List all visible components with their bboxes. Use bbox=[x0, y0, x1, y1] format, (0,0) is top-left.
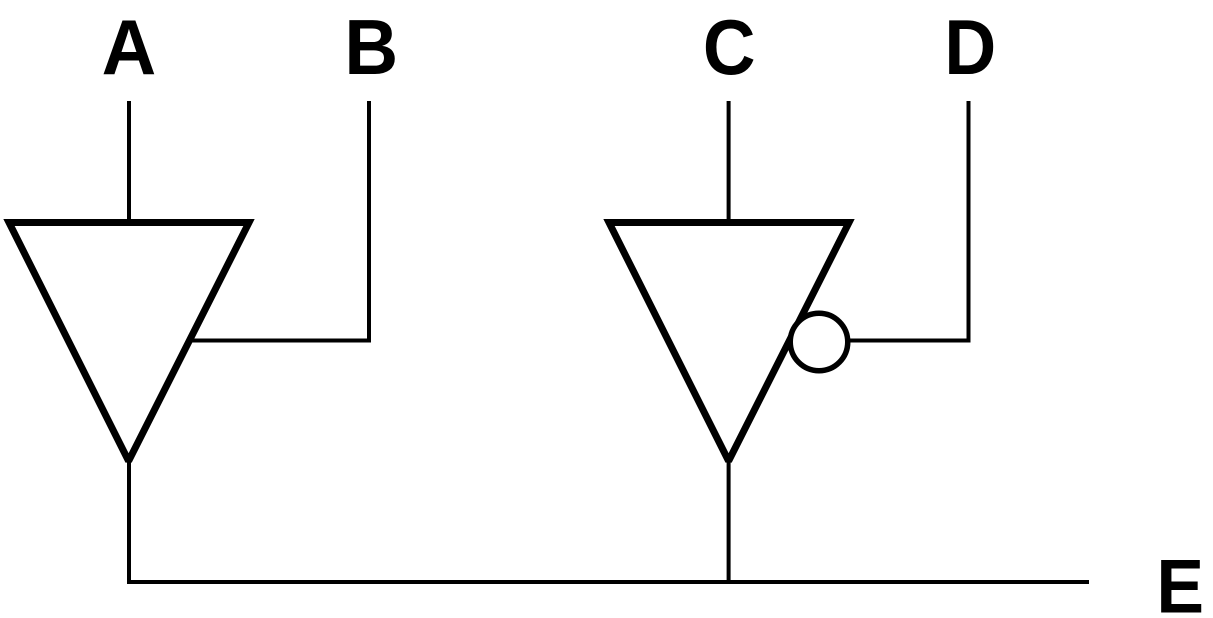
svg-text:E: E bbox=[1156, 543, 1204, 618]
svg-text:D: D bbox=[944, 3, 996, 90]
svg-text:A: A bbox=[102, 4, 157, 91]
svg-text:B: B bbox=[344, 4, 398, 91]
svg-text:C: C bbox=[703, 4, 756, 91]
